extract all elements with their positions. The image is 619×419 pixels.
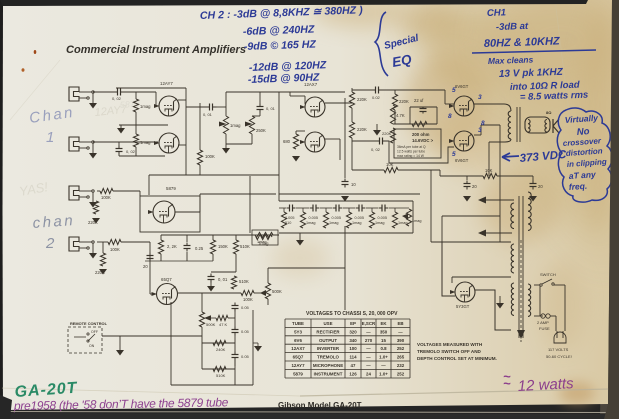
svg-text:8Ω: 8Ω xyxy=(546,110,552,115)
svg-text:100K: 100K xyxy=(243,297,253,302)
svg-text:1mag: 1mag xyxy=(375,221,385,225)
svg-text:100: 100 xyxy=(349,346,357,351)
svg-text:CH1: CH1 xyxy=(487,7,506,19)
svg-text:EP: EP xyxy=(350,321,356,326)
svg-text:6V6: 6V6 xyxy=(294,338,302,343)
svg-text:—: — xyxy=(366,355,371,360)
svg-text:0.25: 0.25 xyxy=(195,246,204,251)
svg-text:0, 01: 0, 01 xyxy=(266,106,276,111)
svg-text:5: 5 xyxy=(452,151,456,158)
svg-text:TREMOLO: TREMOLO xyxy=(317,355,340,360)
svg-text:15: 15 xyxy=(381,338,386,343)
svg-text:2, 2K: 2, 2K xyxy=(167,244,177,249)
svg-text:—: — xyxy=(366,346,371,351)
svg-text:0, 02: 0, 02 xyxy=(126,149,136,154)
svg-text:EK: EK xyxy=(380,321,387,326)
svg-text:20: 20 xyxy=(538,184,543,189)
svg-text:max rating = 14 W: max rating = 14 W xyxy=(397,154,425,158)
svg-text:1: 1 xyxy=(46,129,54,146)
svg-text:10K: 10K xyxy=(386,162,394,167)
svg-text:0.05: 0.05 xyxy=(241,329,250,334)
svg-text:2 AMP: 2 AMP xyxy=(537,320,549,325)
svg-text:1mag: 1mag xyxy=(352,221,362,225)
svg-text:chan: chan xyxy=(32,212,76,232)
svg-text:SWITCH: SWITCH xyxy=(540,272,556,277)
svg-text:510K: 510K xyxy=(239,279,249,284)
svg-text:0.005: 0.005 xyxy=(309,216,319,220)
svg-text:220K: 220K xyxy=(357,97,367,102)
svg-text:12AY7: 12AY7 xyxy=(160,81,173,86)
svg-text:OUTPUT: OUTPUT xyxy=(319,338,337,343)
svg-text:10K: 10K xyxy=(485,168,493,173)
svg-text:0.005: 0.005 xyxy=(285,216,295,220)
svg-text:5879: 5879 xyxy=(293,371,303,376)
svg-text:5879: 5879 xyxy=(166,186,176,191)
svg-text:VOLTAGES TO CHASSI S, 20, 000: VOLTAGES TO CHASSI S, 20, 000 OPV xyxy=(306,311,398,317)
svg-text:INSTRUMENT: INSTRUMENT xyxy=(314,371,343,376)
svg-text:220K: 220K xyxy=(399,99,409,104)
svg-text:-3dB at: -3dB at xyxy=(496,21,529,33)
svg-text:1mag: 1mag xyxy=(140,140,151,145)
svg-text:20: 20 xyxy=(143,264,148,269)
svg-text:0, 01: 0, 01 xyxy=(203,112,213,117)
svg-text:0, 02: 0, 02 xyxy=(371,147,381,152)
svg-text:500K: 500K xyxy=(206,322,216,327)
svg-text:freq.: freq. xyxy=(568,181,587,192)
svg-text:13 V pk 1KHZ: 13 V pk 1KHZ xyxy=(499,67,564,80)
svg-text:0.005: 0.005 xyxy=(332,216,342,220)
svg-text:—: — xyxy=(398,329,403,334)
svg-text:8: 8 xyxy=(481,120,485,127)
svg-text:OFF: OFF xyxy=(91,330,98,334)
svg-text:100K: 100K xyxy=(205,154,215,159)
svg-text:220K: 220K xyxy=(357,127,367,132)
svg-text:2: 2 xyxy=(45,235,55,252)
svg-text:5Y3GT: 5Y3GT xyxy=(456,304,470,309)
svg-text:~: ~ xyxy=(503,376,511,391)
svg-text:Commercial Instrument Amplif: Commercial Instrument Amplifiers xyxy=(66,44,246,56)
svg-text:Max cleans: Max cleans xyxy=(488,54,534,66)
svg-text:500K: 500K xyxy=(272,289,282,294)
svg-text:1mag: 1mag xyxy=(257,240,267,244)
svg-text:0.05: 0.05 xyxy=(241,354,250,359)
svg-text:0.005: 0.005 xyxy=(355,216,365,220)
svg-text:aT any: aT any xyxy=(568,169,597,181)
svg-text:22 uf: 22 uf xyxy=(414,98,424,103)
svg-text:265: 265 xyxy=(397,355,405,360)
svg-text:117 VOLTS: 117 VOLTS xyxy=(548,347,569,352)
svg-text:VOLTAGES MEASURED WITH: VOLTAGES MEASURED WITH xyxy=(417,342,483,347)
svg-text:24: 24 xyxy=(366,371,371,376)
svg-text:232: 232 xyxy=(397,363,405,368)
svg-text:USE: USE xyxy=(323,321,332,326)
svg-text:INVERTER: INVERTER xyxy=(317,346,340,351)
svg-text:12 watts: 12 watts xyxy=(517,375,574,395)
svg-text:14.6VDC >: 14.6VDC > xyxy=(412,138,434,143)
svg-text:510K: 510K xyxy=(216,373,226,378)
svg-text:340: 340 xyxy=(349,338,357,343)
svg-text:No: No xyxy=(576,126,590,138)
svg-text:250K: 250K xyxy=(256,128,266,133)
svg-text:6V6GT: 6V6GT xyxy=(455,84,469,89)
svg-text:0, 02: 0, 02 xyxy=(112,96,122,101)
svg-text:TREMOLO SWITCH OFF AND: TREMOLO SWITCH OFF AND xyxy=(417,349,482,354)
svg-text:TUBE: TUBE xyxy=(292,321,304,326)
svg-text:390: 390 xyxy=(397,338,405,343)
svg-text:65Q7: 65Q7 xyxy=(161,277,172,282)
svg-text:FUSE: FUSE xyxy=(539,326,550,331)
svg-text:200 ohm: 200 ohm xyxy=(412,132,430,137)
svg-text:0.05: 0.05 xyxy=(241,305,250,310)
svg-text:REMOTE CONTROL: REMOTE CONTROL xyxy=(70,321,108,326)
svg-text:—: — xyxy=(381,363,386,368)
svg-text:20: 20 xyxy=(472,184,477,189)
svg-text:12AX7: 12AX7 xyxy=(291,346,305,351)
svg-text:ON: ON xyxy=(89,344,95,348)
svg-text:100K: 100K xyxy=(110,247,120,252)
svg-text:47: 47 xyxy=(351,363,356,368)
svg-text:MICROPHONE: MICROPHONE xyxy=(313,363,343,368)
svg-text:8: 8 xyxy=(448,113,452,120)
svg-text:320: 320 xyxy=(349,329,357,334)
svg-text:-15dB @ 90HZ: -15dB @ 90HZ xyxy=(248,71,320,86)
svg-text:3: 3 xyxy=(478,127,482,134)
svg-text:350: 350 xyxy=(380,329,388,334)
svg-text:3: 3 xyxy=(478,94,482,101)
svg-text:1mag: 1mag xyxy=(230,123,241,128)
svg-text:Gibson Model GA-20T: Gibson Model GA-20T xyxy=(278,401,362,410)
svg-text:220K: 220K xyxy=(382,131,392,136)
svg-text:114: 114 xyxy=(349,355,357,360)
svg-text:12AY7: 12AY7 xyxy=(291,363,305,368)
svg-text:220K: 220K xyxy=(88,220,98,225)
svg-text:—: — xyxy=(366,329,371,334)
svg-text:0.005: 0.005 xyxy=(378,216,388,220)
svg-text:EB: EB xyxy=(397,321,403,326)
svg-text:RECTIFIER: RECTIFIER xyxy=(316,329,340,334)
svg-text:252: 252 xyxy=(397,346,405,351)
svg-text:1mag: 1mag xyxy=(306,221,316,225)
svg-text:252: 252 xyxy=(397,371,405,376)
svg-text:-9dB © 165 HZ: -9dB © 165 HZ xyxy=(244,38,317,53)
svg-text:1.0+: 1.0+ xyxy=(379,371,388,376)
svg-text:—: — xyxy=(366,363,371,368)
svg-text:270: 270 xyxy=(365,338,373,343)
svg-text:1.0+: 1.0+ xyxy=(379,355,388,360)
svg-text:5: 5 xyxy=(452,87,456,94)
svg-text:50-60 CYCLE!: 50-60 CYCLE! xyxy=(546,354,572,359)
svg-text:47 K: 47 K xyxy=(219,322,228,327)
svg-text:100K: 100K xyxy=(101,195,111,200)
svg-text:5Y3: 5Y3 xyxy=(294,329,302,334)
svg-text:0, 01: 0, 01 xyxy=(218,277,228,282)
svg-text:65Q7: 65Q7 xyxy=(293,355,304,360)
svg-text:510: 510 xyxy=(285,221,291,225)
svg-text:510K: 510K xyxy=(240,244,250,249)
svg-text:-6dB @ 240HZ: -6dB @ 240HZ xyxy=(243,23,315,38)
svg-text:1mag: 1mag xyxy=(412,219,422,223)
svg-text:DEPTH CONTROL SET AT MINIMUM.: DEPTH CONTROL SET AT MINIMUM. xyxy=(417,356,497,361)
svg-text:0.8: 0.8 xyxy=(380,346,387,351)
svg-text:150K: 150K xyxy=(218,244,228,249)
svg-text:240K: 240K xyxy=(216,347,226,352)
svg-text:126: 126 xyxy=(349,371,357,376)
svg-text:1mag: 1mag xyxy=(329,221,339,225)
svg-text:6V6GT: 6V6GT xyxy=(455,158,469,163)
svg-text:0.02: 0.02 xyxy=(372,95,381,100)
svg-text:12.5 watts per tube: 12.5 watts per tube xyxy=(397,150,425,154)
svg-text:10: 10 xyxy=(351,182,356,187)
svg-text:E,SCR: E,SCR xyxy=(362,321,376,326)
svg-text:1mag: 1mag xyxy=(140,104,151,109)
svg-text:680: 680 xyxy=(283,139,291,144)
svg-text:36mA per tube at Q: 36mA per tube at Q xyxy=(397,145,426,149)
svg-text:4.7K: 4.7K xyxy=(396,113,405,118)
